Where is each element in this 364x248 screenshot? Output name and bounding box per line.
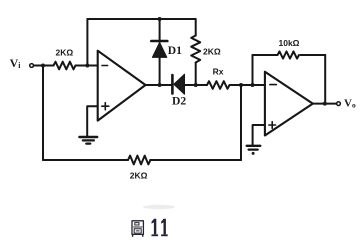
wire feedback top left — [253, 54, 278, 56]
label D2 — [172, 94, 186, 107]
label D1 — [168, 44, 182, 57]
svg-text:10kΩ: 10kΩ — [279, 38, 300, 48]
label R2 value 2KΩ — [203, 46, 221, 56]
wire bottom feedback left vertical — [42, 66, 44, 161]
svg-text:Rx: Rx — [213, 67, 224, 77]
svg-text:Vo: Vo — [344, 97, 356, 109]
svg-text:D2: D2 — [172, 94, 186, 107]
op-amp U2 — [265, 72, 313, 136]
svg-text:Vi: Vi — [10, 56, 22, 70]
label Vo — [344, 97, 356, 109]
resistor R3 10kΩ — [278, 51, 300, 58]
node 10k feedback junction — [251, 83, 255, 87]
wire R1 to U1 inverting input — [76, 65, 98, 67]
diode D1 — [151, 19, 167, 85]
svg-text:2KΩ: 2KΩ — [203, 46, 221, 56]
resistor R2 vertical 2KΩ — [191, 19, 200, 85]
wire Rx to U2 inverting input — [231, 84, 265, 86]
resistor R4 bottom 2KΩ — [128, 156, 150, 165]
node U2 output — [323, 102, 327, 106]
ground GND1 — [79, 137, 97, 144]
wire inverting node up to top rail — [86, 19, 88, 66]
node U1 inverting input — [85, 64, 89, 68]
node R2 bottom junction — [194, 83, 198, 87]
wire U1 output to D2 — [146, 84, 172, 86]
input terminal Vi — [30, 64, 34, 68]
label R1 value 2KΩ — [56, 48, 74, 58]
wire U1 non-inverting input to ground — [87, 106, 98, 136]
label R3 value 10kΩ — [279, 38, 300, 48]
label Vi — [10, 56, 22, 70]
wire D2 to Rx — [185, 84, 208, 86]
wire feedback top right — [301, 54, 326, 56]
resistor Rx — [207, 81, 229, 89]
caption figure smudge — [143, 205, 175, 209]
diode D2 — [172, 74, 184, 94]
svg-text:2KΩ: 2KΩ — [130, 170, 148, 180]
caption number 11 — [152, 219, 168, 236]
resistor R1 — [54, 62, 76, 70]
caption character 圖 — [132, 221, 143, 236]
label R4 value 2KΩ — [130, 170, 148, 180]
node Vi junction — [41, 64, 45, 68]
svg-text:D1: D1 — [168, 44, 182, 57]
node bottom feedback junction — [239, 83, 243, 87]
op-amp U1 — [98, 51, 146, 121]
output terminal Vo — [337, 102, 341, 106]
wire bottom feedback up to inverting node — [240, 85, 242, 160]
label Rx — [213, 67, 224, 77]
node D1 top — [158, 17, 162, 21]
wire feedback down to U2 output — [324, 55, 326, 104]
svg-text:2KΩ: 2KΩ — [56, 48, 74, 58]
ground GND2 — [247, 146, 261, 155]
wire feedback left vertical to 10k — [252, 55, 254, 85]
wire Vi terminal to R1 — [34, 65, 54, 67]
node U1 output / D1 bottom — [158, 83, 162, 87]
wire bottom feedback rail left — [43, 159, 128, 161]
wire bottom feedback rail right — [150, 159, 241, 161]
wire top rail — [87, 18, 195, 20]
wire U2 non-inverting input to ground — [253, 125, 265, 145]
wire U2 output — [313, 103, 337, 105]
